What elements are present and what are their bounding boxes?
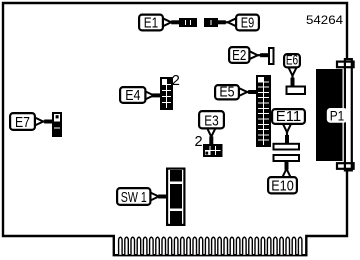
label E1 [139,15,163,31]
jumper E7 pin1 dot [56,115,59,118]
label E4 [120,87,145,103]
pointer E7 [35,118,43,126]
connector P1 bottom tab [337,163,354,169]
label E10 [268,177,297,193]
label E5 [215,85,239,99]
jumper E3 [204,145,222,156]
jumper E6 [287,87,306,95]
label E11 [272,109,305,124]
svg-text:E5: E5 [219,85,234,101]
svg-text:E10: E10 [271,179,294,195]
pointer E4 [145,91,153,99]
switch SW1 body [167,169,184,225]
jumper E2 [269,48,274,64]
label E7 [10,113,35,130]
svg-text:E7: E7 [15,115,30,131]
header E5 [257,76,270,146]
jumper E3 pin1 dot [205,152,208,155]
svg-text:P1: P1 [330,108,345,124]
pointer E5 [239,88,247,96]
switch SW1 segment 3 [170,211,182,225]
pointer E1 [163,18,171,26]
jumper E7 [53,113,61,136]
pointer SW1 [150,193,158,201]
svg-text:E2: E2 [232,48,246,64]
connector P1 black body [316,69,343,161]
pointer E6 [288,67,296,75]
svg-text:54264: 54264 [306,13,343,27]
jumper E4 [161,78,172,109]
svg-text:E3: E3 [204,114,219,130]
edge connector fingers [119,237,302,255]
switch SW1 segment 2 [170,184,182,209]
connector P1 top tab [337,62,354,68]
jumper E10 bar [274,155,300,161]
svg-text:SW 1: SW 1 [121,190,147,206]
pointer E9 [228,18,236,26]
pointer E3 [207,128,215,136]
switch SW1 segment 1 [170,170,182,182]
svg-text:2: 2 [195,134,203,150]
label E9 [236,15,259,31]
jumper E11 bar [274,144,300,150]
svg-text:2: 2 [172,73,180,89]
svg-text:E9: E9 [241,16,255,32]
jumper E1 [180,19,196,26]
pointer E2 [249,51,257,59]
pointer E10 [282,169,290,177]
connector P1 bracket body [345,59,352,170]
label SW1 [117,188,150,205]
label P1 [327,108,348,123]
svg-text:E6: E6 [286,53,298,68]
label E6 [284,54,300,67]
label E2 [229,47,249,63]
jumper E9 [205,19,217,26]
svg-text:E1: E1 [144,16,158,32]
svg-text:E4: E4 [125,88,140,104]
svg-text:E11: E11 [276,109,302,125]
pointer E11 [283,124,291,132]
label E3 [199,111,224,128]
